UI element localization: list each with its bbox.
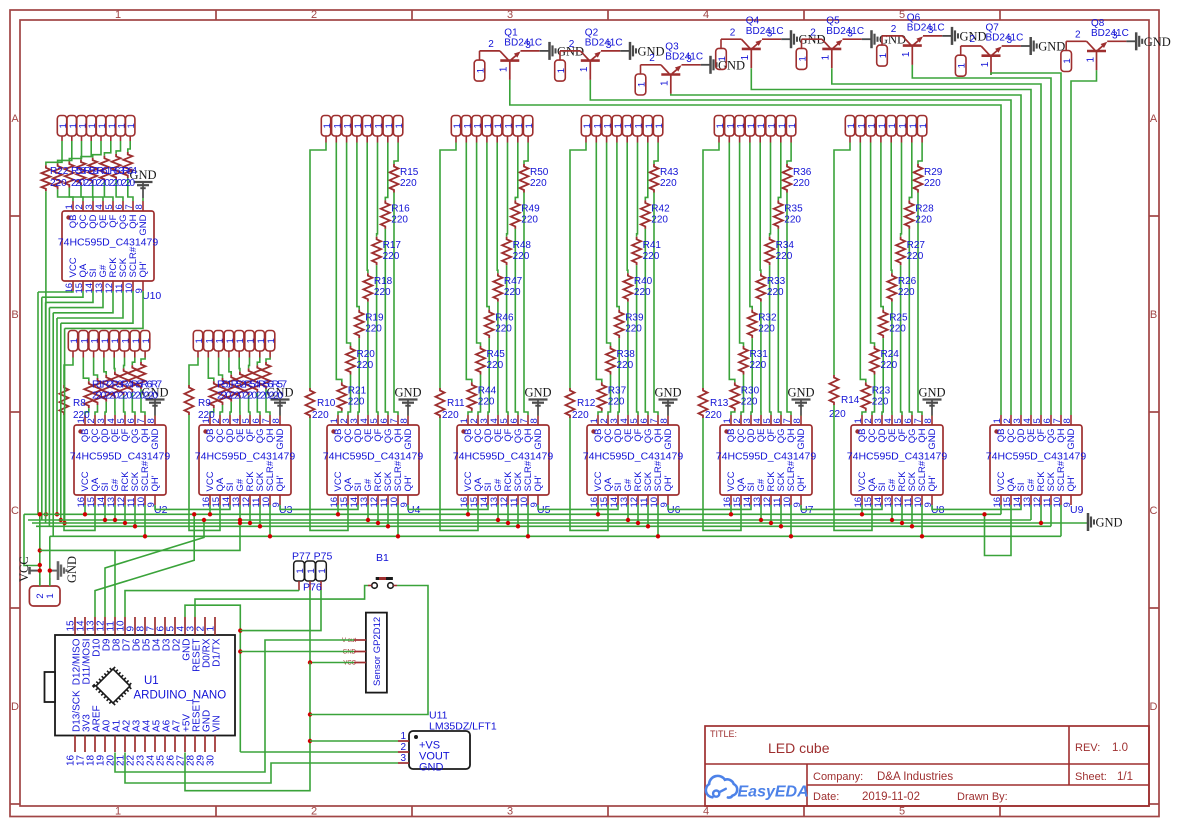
wire R53 to pin bbox=[230, 402, 231, 415]
wire R23 to pin bbox=[862, 411, 866, 415]
resistor R57 220 bbox=[262, 362, 271, 389]
connector row (U6 outputs) bbox=[581, 116, 665, 143]
svg-text:1: 1 bbox=[141, 338, 152, 343]
ground (emitter Q6) bbox=[942, 27, 986, 45]
wire conn4 to resistor bbox=[81, 141, 91, 160]
svg-text:30: 30 bbox=[206, 754, 217, 766]
svg-text:220: 220 bbox=[374, 287, 391, 298]
svg-text:3: 3 bbox=[686, 54, 692, 65]
wire conn2 to R44 bbox=[466, 143, 472, 383]
svg-text:220: 220 bbox=[643, 251, 660, 262]
svg-text:R29: R29 bbox=[924, 167, 943, 178]
svg-text:R30: R30 bbox=[741, 385, 760, 396]
svg-text:3: 3 bbox=[400, 753, 406, 764]
transistor Q1 bbox=[480, 27, 543, 80]
svg-text:1: 1 bbox=[394, 123, 405, 128]
wire conn8 to R36 bbox=[787, 143, 791, 165]
wire conn5 to R26 bbox=[890, 143, 893, 274]
resistor R15 220 bbox=[390, 164, 419, 193]
IC U1 ARDUINO_NANO bbox=[45, 617, 236, 766]
wire conn2 to R37 bbox=[596, 143, 602, 383]
wire pin3 to button bbox=[195, 586, 368, 618]
wire conn1 to R9 bbox=[189, 358, 198, 386]
svg-text:5: 5 bbox=[899, 806, 905, 818]
resistor R52 220 bbox=[218, 378, 227, 405]
svg-text:220: 220 bbox=[889, 324, 906, 335]
svg-text:2: 2 bbox=[1075, 30, 1081, 41]
svg-text:220: 220 bbox=[907, 251, 924, 262]
wire conn3 to R38 bbox=[607, 143, 611, 347]
wire R57 to pin bbox=[266, 389, 270, 415]
svg-text:3: 3 bbox=[928, 25, 934, 36]
resistor R50 220 bbox=[520, 164, 549, 193]
wire conn6 to R48 bbox=[506, 143, 509, 237]
svg-text:R58R59R61R63R64: R58R59R61R63R64 bbox=[71, 166, 137, 177]
svg-text:8: 8 bbox=[659, 418, 670, 423]
svg-text:220: 220 bbox=[198, 410, 215, 421]
svg-text:1: 1 bbox=[45, 593, 56, 598]
wire U4 QH' hop to next SI bbox=[408, 505, 488, 509]
wire conn2 to R21 bbox=[336, 143, 342, 383]
wire conn1 to R10 bbox=[310, 143, 326, 389]
svg-text:2: 2 bbox=[810, 27, 816, 38]
svg-text:R17: R17 bbox=[383, 240, 402, 251]
wire D12 diagonal riser to bus bbox=[95, 514, 194, 617]
svg-text:2: 2 bbox=[649, 53, 655, 64]
svg-text:220: 220 bbox=[495, 324, 512, 335]
ground (U7 pin8) bbox=[787, 386, 814, 416]
connector (base input of Q7) bbox=[955, 46, 967, 76]
svg-text:R15: R15 bbox=[400, 167, 419, 178]
resistor R40 220 bbox=[623, 273, 652, 302]
wire R25 to pin bbox=[882, 338, 883, 415]
svg-text:ARDUINO_NANO: ARDUINO_NANO bbox=[134, 690, 227, 702]
wire conn6 to R17 bbox=[376, 143, 379, 237]
ground (emitter Q2) bbox=[620, 42, 664, 60]
svg-text:3: 3 bbox=[507, 9, 513, 21]
op-amp U2 74HC595D bbox=[70, 415, 171, 516]
transistor Q5 bbox=[802, 16, 865, 68]
ground (emitter Q7) bbox=[1021, 37, 1065, 55]
svg-text:1: 1 bbox=[317, 568, 328, 573]
wire D10 riser to P77 bbox=[125, 591, 299, 617]
wire B1 drop to VCC junction bbox=[24, 514, 40, 565]
svg-text:R14: R14 bbox=[841, 395, 860, 406]
wire D9 riser along y550 bbox=[114, 550, 116, 617]
svg-text:R39: R39 bbox=[625, 313, 644, 324]
svg-text:220: 220 bbox=[357, 360, 374, 371]
svg-text:R22: R22 bbox=[50, 166, 69, 177]
resistor R58 220 bbox=[53, 163, 62, 189]
transistor Q8 bbox=[1066, 18, 1129, 71]
svg-text:R44: R44 bbox=[478, 385, 497, 396]
resistor R60 220 bbox=[77, 160, 86, 186]
svg-text:220: 220 bbox=[634, 287, 651, 298]
resistor R35 220 bbox=[774, 200, 803, 229]
ground (U2 pin8) bbox=[141, 386, 168, 416]
svg-text:R33: R33 bbox=[767, 276, 786, 287]
svg-text:1: 1 bbox=[717, 56, 728, 61]
wire Q2 collector to U9 bbox=[590, 80, 1011, 415]
svg-text:QH': QH' bbox=[1066, 475, 1077, 491]
wires U9 bottom pins bbox=[1000, 505, 1002, 514]
wire R6 to pin bbox=[132, 392, 135, 415]
svg-text:R36: R36 bbox=[793, 167, 812, 178]
resistor R5 220 bbox=[119, 368, 128, 395]
resistor R57 220 bbox=[41, 165, 50, 191]
svg-text:A: A bbox=[11, 113, 19, 125]
resistor R13 220 bbox=[699, 388, 729, 421]
wire R24 to pin bbox=[872, 375, 875, 416]
svg-text:220: 220 bbox=[872, 396, 889, 407]
svg-text:220: 220 bbox=[400, 178, 417, 189]
wire Q4 collector to U9 bbox=[751, 68, 1031, 415]
svg-text:R20: R20 bbox=[357, 349, 376, 360]
svg-text:R45: R45 bbox=[487, 349, 506, 360]
wire conn1 to R14 bbox=[834, 143, 850, 376]
wire R35 to pin bbox=[778, 229, 781, 415]
svg-text:GND: GND bbox=[394, 386, 421, 400]
wire conn1 to R11 bbox=[440, 143, 456, 389]
connector P (VCC 2-pin) bbox=[29, 578, 60, 606]
resistor R21 220 bbox=[337, 382, 366, 411]
svg-text:GND: GND bbox=[533, 428, 544, 449]
wire conn4 to R25 bbox=[881, 143, 883, 310]
svg-text:220: 220 bbox=[617, 360, 634, 371]
wires U8 bottom pins to bus bbox=[861, 505, 863, 514]
wire R14 to pin15 QA bbox=[834, 405, 872, 530]
resistor R44 220 bbox=[467, 382, 496, 411]
svg-text:220: 220 bbox=[530, 178, 547, 189]
svg-text:R26: R26 bbox=[898, 276, 917, 287]
svg-text:VIN: VIN bbox=[212, 715, 223, 732]
svg-text:R18: R18 bbox=[374, 276, 393, 287]
wire conn4 to R39 bbox=[617, 143, 619, 310]
svg-text:R28: R28 bbox=[915, 203, 934, 214]
op-amp U3 74HC595D bbox=[195, 415, 296, 516]
wire conn3 to R31 bbox=[740, 143, 744, 347]
svg-text:TITLE:: TITLE: bbox=[710, 729, 737, 739]
svg-text:220: 220 bbox=[898, 287, 915, 298]
svg-text:1: 1 bbox=[901, 51, 912, 57]
svg-text:1.0: 1.0 bbox=[1112, 742, 1128, 754]
svg-text:R10: R10 bbox=[317, 398, 336, 409]
wire conn4 to R46 bbox=[487, 143, 489, 310]
resistor R10 220 bbox=[306, 388, 336, 421]
connector (base input of Q3) bbox=[635, 65, 647, 95]
wire conn6 to R41 bbox=[636, 143, 639, 237]
transistor Q7 bbox=[961, 23, 1024, 76]
wire R20 to pin bbox=[348, 375, 351, 416]
wire resistor to pin bbox=[104, 182, 113, 201]
svg-text:U1: U1 bbox=[144, 675, 159, 687]
svg-text:220: 220 bbox=[442, 410, 459, 421]
svg-text:U10: U10 bbox=[142, 290, 161, 302]
wire conn2 to R30 bbox=[729, 143, 735, 383]
wire R50 to pin bbox=[524, 193, 528, 416]
wire conn8 to R57 bbox=[266, 358, 270, 363]
ground (U3 pin8) bbox=[266, 386, 293, 416]
op-amp U5 74HC595D bbox=[453, 415, 554, 516]
ground (emitter Q1) bbox=[540, 42, 584, 60]
svg-text:3: 3 bbox=[507, 806, 513, 818]
ground (gray, left) bbox=[50, 556, 79, 583]
resistor R39 220 bbox=[615, 310, 644, 339]
wire R43 to pin bbox=[654, 193, 658, 416]
wire conn2 to R1 bbox=[83, 358, 89, 382]
resistor R9 220 bbox=[185, 385, 216, 421]
svg-text:1: 1 bbox=[400, 731, 406, 742]
wire R44 to pin bbox=[468, 411, 472, 415]
wire conn5 to R33 bbox=[759, 143, 762, 274]
svg-text:220: 220 bbox=[572, 410, 589, 421]
svg-text:GND: GND bbox=[275, 428, 286, 449]
wire conn5 to resistor bbox=[93, 141, 101, 158]
wire conn5 to R47 bbox=[496, 143, 499, 274]
svg-text:1: 1 bbox=[499, 66, 510, 72]
svg-text:8: 8 bbox=[399, 418, 410, 423]
wire LM35 VOUT left bbox=[240, 751, 398, 753]
resistor R61 220 bbox=[88, 158, 97, 184]
power VCC symbol bbox=[17, 556, 40, 582]
wires VCC junctions bbox=[39, 514, 41, 586]
wire conn7 to R35 bbox=[778, 143, 781, 201]
wire R30 to pin bbox=[731, 411, 735, 415]
wire conn3 to R52 bbox=[219, 358, 223, 379]
svg-text:R46: R46 bbox=[495, 313, 514, 324]
svg-text:74HC595D_C431479: 74HC595D_C431479 bbox=[70, 450, 171, 462]
svg-text:R42: R42 bbox=[651, 203, 670, 214]
resistor R1 220 bbox=[84, 381, 93, 408]
wire R40 to pin bbox=[627, 302, 629, 415]
svg-text:8: 8 bbox=[529, 418, 540, 423]
ground (U10 pin8) bbox=[129, 168, 156, 198]
wire resistor to pin bbox=[81, 186, 93, 201]
svg-text:220: 220 bbox=[391, 214, 408, 225]
wire conn7 to R56 bbox=[257, 358, 260, 366]
svg-text:2: 2 bbox=[730, 27, 736, 38]
svg-text:R12: R12 bbox=[577, 398, 596, 409]
svg-text:Drawn By:: Drawn By: bbox=[957, 791, 1008, 803]
svg-text:1: 1 bbox=[787, 123, 798, 128]
wire resistor to pin bbox=[128, 178, 133, 201]
svg-text:GND: GND bbox=[918, 386, 945, 400]
svg-text:220220220220220: 220220220220220 bbox=[217, 391, 283, 402]
svg-text:QH': QH' bbox=[275, 475, 286, 491]
wire resistor to pin bbox=[93, 184, 103, 201]
svg-text:1: 1 bbox=[1085, 57, 1096, 63]
svg-text:8: 8 bbox=[134, 204, 145, 209]
svg-text:P77 P75: P77 P75 bbox=[292, 551, 332, 563]
svg-text:R51R52R54R56R57: R51R52R54R56R57 bbox=[217, 380, 287, 391]
svg-text:U9: U9 bbox=[1070, 504, 1084, 516]
svg-text:220: 220 bbox=[750, 360, 767, 371]
resistor R54 220 bbox=[235, 372, 244, 399]
svg-text:220: 220 bbox=[608, 396, 625, 407]
svg-text:GND: GND bbox=[343, 650, 357, 656]
resistor R26 220 bbox=[887, 273, 916, 302]
svg-text:74HC595D_C431479: 74HC595D_C431479 bbox=[195, 450, 296, 462]
svg-text:R41: R41 bbox=[643, 240, 662, 251]
svg-text:220: 220 bbox=[50, 178, 67, 189]
svg-text:B: B bbox=[11, 309, 18, 321]
wire Q3 collector to U9 bbox=[671, 94, 1021, 415]
resistor R27 220 bbox=[896, 237, 925, 265]
wire Q8 collector to U9 bbox=[1071, 70, 1097, 415]
wire conn6 to R5 bbox=[123, 358, 126, 369]
wire conn5 to R40 bbox=[626, 143, 629, 274]
svg-text:D&A Industries: D&A Industries bbox=[877, 771, 953, 783]
svg-text:V-out: V-out bbox=[342, 638, 356, 644]
wire Q1 collector to U9 bbox=[510, 80, 1001, 415]
svg-text:1: 1 bbox=[115, 806, 121, 818]
svg-text:QH': QH' bbox=[533, 475, 544, 491]
ground (U5 pin8) bbox=[524, 386, 551, 416]
connector (base input of Q4) bbox=[716, 39, 728, 69]
resistor R48 220 bbox=[502, 237, 531, 265]
svg-text:8: 8 bbox=[792, 418, 803, 423]
connector (base input of Q5) bbox=[796, 39, 808, 69]
wire conn2 to R23 bbox=[860, 143, 866, 383]
svg-text:1: 1 bbox=[821, 54, 832, 60]
op-amp U10 74HC595D bbox=[58, 201, 162, 302]
svg-text:220: 220 bbox=[829, 409, 846, 420]
svg-text:1: 1 bbox=[556, 68, 567, 73]
wire resistor down to bus bbox=[45, 191, 47, 514]
resistor R19 220 bbox=[355, 310, 384, 339]
svg-text:5: 5 bbox=[899, 9, 905, 21]
ground (U6 pin8) bbox=[654, 386, 681, 416]
wire resistor to pin bbox=[69, 188, 83, 202]
svg-text:2: 2 bbox=[311, 806, 317, 818]
resistor R7 220 bbox=[137, 362, 146, 389]
svg-text:74HC595D_C431479: 74HC595D_C431479 bbox=[583, 450, 684, 462]
svg-text:A: A bbox=[1150, 113, 1158, 125]
svg-text:R35: R35 bbox=[784, 203, 803, 214]
wire R15 to pin bbox=[394, 193, 398, 416]
wire U9 QA loop bbox=[985, 505, 1012, 556]
svg-text:220: 220 bbox=[348, 396, 365, 407]
svg-text:GND: GND bbox=[65, 556, 79, 583]
wire conn2 to resistor bbox=[58, 141, 72, 163]
svg-text:220: 220 bbox=[741, 396, 758, 407]
connector row (U3 outputs) bbox=[193, 331, 277, 358]
svg-text:220: 220 bbox=[915, 214, 932, 225]
svg-text:Company:: Company: bbox=[813, 771, 863, 783]
svg-text:1: 1 bbox=[878, 53, 889, 58]
svg-text:R31: R31 bbox=[750, 349, 769, 360]
resistor R12 220 bbox=[566, 388, 596, 421]
svg-text:2: 2 bbox=[311, 9, 317, 21]
resistor R14 220 bbox=[829, 375, 860, 420]
svg-text:4: 4 bbox=[703, 9, 709, 21]
wire U7 QH' hop to next SI bbox=[801, 505, 882, 509]
resistor R62 220 bbox=[100, 156, 109, 182]
svg-text:R1R2R3R4R5R6R7: R1R2R3R4R5R6R7 bbox=[92, 380, 162, 391]
resistor R16 220 bbox=[381, 200, 410, 229]
svg-text:R24: R24 bbox=[881, 349, 900, 360]
svg-text:BD241C: BD241C bbox=[504, 38, 542, 49]
wire resistor to pin bbox=[58, 189, 73, 201]
connector row (U5 outputs) bbox=[451, 116, 535, 143]
resistor R47 220 bbox=[493, 273, 522, 302]
resistor R64 220 bbox=[123, 152, 132, 178]
resistor R53 220 bbox=[227, 375, 236, 402]
wire R38 to pin bbox=[608, 375, 611, 416]
svg-text:BD241C: BD241C bbox=[986, 33, 1024, 44]
wires U3 bottom pins to bus bbox=[209, 505, 211, 514]
wire R51 to pin bbox=[210, 408, 214, 415]
svg-text:220: 220 bbox=[513, 251, 530, 262]
IC U11 LM35DZ/LFT1 bbox=[398, 710, 497, 774]
resistor R46 220 bbox=[485, 310, 514, 339]
svg-text:220: 220 bbox=[383, 251, 400, 262]
wire left bundle verticals bbox=[37, 292, 39, 514]
svg-text:1: 1 bbox=[918, 123, 929, 128]
resistor R17 220 bbox=[372, 237, 401, 265]
resistor R30 220 bbox=[730, 382, 759, 411]
ground (emitter Q4) bbox=[781, 30, 825, 48]
wire LM35 GND chain bbox=[125, 753, 398, 784]
svg-text:220: 220 bbox=[881, 360, 898, 371]
svg-text:QH': QH' bbox=[927, 475, 938, 491]
svg-text:QH': QH' bbox=[663, 475, 674, 491]
wire R11 to pin15 QA bbox=[440, 418, 478, 530]
svg-text:1: 1 bbox=[476, 68, 487, 73]
wire conn7 to R49 bbox=[515, 143, 518, 201]
resistor R2 220 bbox=[93, 378, 102, 405]
svg-text:1: 1 bbox=[126, 123, 137, 128]
wire R42 to pin bbox=[645, 229, 648, 415]
resistor R45 220 bbox=[476, 346, 505, 375]
svg-text:220: 220 bbox=[776, 251, 793, 262]
svg-text:C: C bbox=[1150, 505, 1158, 517]
svg-text:1: 1 bbox=[115, 9, 121, 21]
wire conn6 to R55 bbox=[248, 358, 251, 369]
svg-text:GND: GND bbox=[524, 386, 551, 400]
wire conn7 to R6 bbox=[132, 358, 135, 366]
svg-text:74HC595D_C431479: 74HC595D_C431479 bbox=[986, 450, 1087, 462]
resistor R59 220 bbox=[65, 162, 74, 188]
wire R47 to pin bbox=[497, 302, 499, 415]
svg-text:Sensor GP2D12: Sensor GP2D12 bbox=[372, 617, 383, 686]
svg-text:3: 3 bbox=[525, 40, 531, 51]
wire R33 to pin bbox=[760, 302, 762, 415]
svg-text:1: 1 bbox=[524, 123, 535, 128]
svg-text:8: 8 bbox=[1062, 418, 1073, 423]
wire R26 to pin bbox=[891, 302, 893, 415]
svg-text:220: 220 bbox=[312, 410, 329, 421]
svg-text:3: 3 bbox=[1112, 31, 1118, 42]
svg-text:R40: R40 bbox=[634, 276, 653, 287]
sensor GP2D12 bbox=[342, 613, 387, 693]
connector row (U7 outputs) bbox=[714, 116, 798, 143]
wire conn4 to R3 bbox=[104, 358, 106, 375]
ground (U8 pin8) bbox=[918, 386, 945, 416]
wire conn3 to R2 bbox=[94, 358, 98, 379]
wire R34 to pin bbox=[770, 265, 771, 415]
svg-text:R47: R47 bbox=[504, 276, 523, 287]
resistor R24 220 bbox=[870, 346, 899, 375]
wire conn1 to R13 bbox=[703, 143, 719, 389]
wire conn7 to R16 bbox=[385, 143, 388, 201]
op-amp U9 74HC595D bbox=[986, 415, 1087, 516]
svg-text:GND: GND bbox=[654, 386, 681, 400]
svg-text:D: D bbox=[11, 701, 19, 713]
svg-text:220: 220 bbox=[365, 324, 382, 335]
svg-text:220: 220 bbox=[767, 287, 784, 298]
wire R49 to pin bbox=[515, 229, 518, 415]
